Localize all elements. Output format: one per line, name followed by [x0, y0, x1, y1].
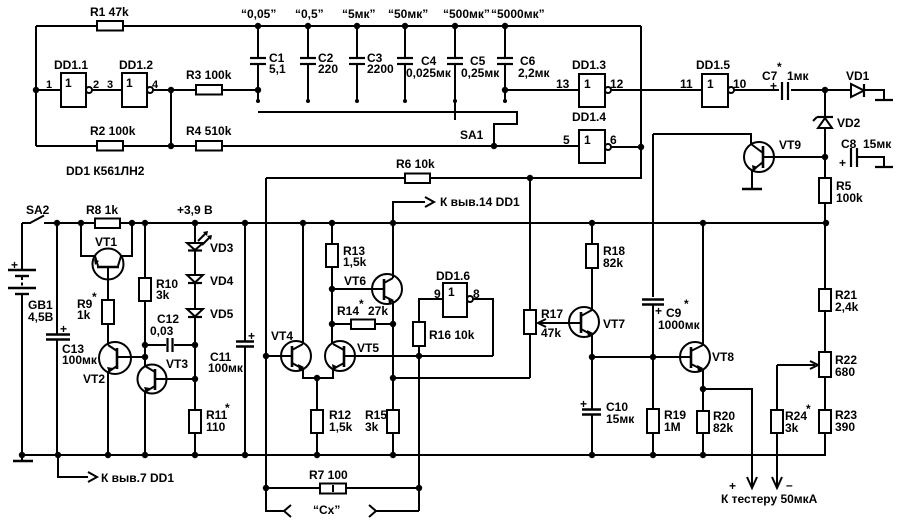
svg-text:15мк: 15мк — [863, 137, 892, 151]
label GB1 4,5V and plus — [11, 258, 54, 324]
svg-text:R1 47k: R1 47k — [90, 5, 129, 19]
label R12 1,5k — [329, 408, 353, 434]
zener diode VD2 — [813, 117, 833, 157]
switch SA1 selector bar — [258, 112, 517, 149]
resistor R1 — [97, 21, 123, 31]
svg-text:220: 220 — [318, 62, 338, 76]
label VT1 — [95, 235, 117, 249]
capacitor C5 — [447, 23, 463, 120]
svg-text:47k: 47k — [541, 326, 561, 340]
resistor R12 — [311, 378, 323, 458]
svg-text:R7 100: R7 100 — [309, 468, 348, 482]
svg-text:1: 1 — [46, 79, 52, 91]
svg-text:3k: 3k — [785, 421, 799, 435]
label VD3 — [210, 241, 234, 255]
wire x825 from y90 down to VD2 — [824, 90, 826, 117]
svg-text:1: 1 — [126, 76, 133, 90]
label R15 3k — [365, 408, 387, 434]
wire x530 from R6 node down to R17 — [529, 178, 531, 310]
svg-text:К тестеру 50мкА: К тестеру 50мкА — [721, 492, 818, 506]
diode VD1 — [851, 84, 893, 100]
transistor VT2 — [99, 342, 145, 455]
label C6 2,2mk — [518, 54, 551, 80]
node junction x393 y223 — [390, 220, 396, 226]
node junction x826 y223 — [823, 220, 829, 226]
svg-text:1: 1 — [584, 77, 591, 91]
wire DD1.6 pin8 down to y356 wire — [473, 299, 493, 356]
wire VT8 collector riser x703 — [702, 223, 704, 345]
label R9 * 1k — [77, 290, 97, 322]
label K vyv.7 DD1 — [101, 471, 174, 485]
resistor R24 with tester minus lead — [771, 365, 783, 488]
label R7 100 — [309, 468, 348, 482]
resistor R18 — [586, 223, 598, 310]
wire DD1.6 pin9 to R16 — [419, 299, 443, 322]
svg-text:“5мк”: “5мк” — [342, 7, 376, 21]
resistor R20 — [697, 389, 709, 458]
wire x393 from rail through VT6 R15 to ground rail — [392, 223, 394, 278]
svg-text:4,5В: 4,5В — [28, 310, 54, 324]
svg-text:R16 10k: R16 10k — [429, 328, 475, 342]
label DD1.3 and inner 1 — [572, 58, 606, 91]
svg-text:82k: 82k — [713, 421, 733, 435]
svg-text:+: + — [580, 397, 587, 411]
wire ground rail y455 — [22, 454, 826, 456]
svg-text:R6 10k: R6 10k — [396, 157, 435, 171]
svg-text:1000мк: 1000мк — [658, 318, 701, 332]
resistor R14 — [332, 320, 393, 330]
svg-text:VD4: VD4 — [210, 274, 234, 288]
svg-text:*: * — [92, 290, 97, 304]
svg-text:82k: 82k — [603, 256, 623, 270]
label "Cx" — [313, 503, 340, 517]
svg-text:VT4: VT4 — [271, 329, 293, 343]
svg-text:К выв.14 DD1: К выв.14 DD1 — [440, 195, 520, 209]
wire vertical x171 to lower wire — [170, 90, 172, 146]
svg-text:DD1.6: DD1.6 — [436, 269, 470, 283]
label C1 5,1 — [269, 51, 286, 76]
label VT7 — [603, 317, 625, 331]
wire C6 node to DD1.3 pin13 — [505, 89, 579, 91]
svg-text:*: * — [777, 60, 782, 74]
wire y357 to VT8 base — [592, 356, 691, 358]
node junction x703 y223 — [700, 220, 706, 226]
label "0,05" — [241, 7, 276, 21]
transistor VT1 — [81, 223, 132, 300]
node junction x317 y378 — [314, 375, 320, 381]
svg-text:C8: C8 — [841, 137, 857, 151]
svg-text:+: + — [655, 304, 662, 318]
capacitor C6 — [497, 23, 513, 103]
pin numbers 3 4 of DD1.2 — [107, 79, 159, 91]
pin numbers 11 10 — [680, 77, 747, 91]
label R22 680 — [835, 353, 857, 379]
svg-text:VT2: VT2 — [83, 372, 105, 386]
svg-text:“5000мк”: “5000мк” — [491, 7, 545, 21]
svg-text:“500мк”: “500мк” — [443, 7, 490, 21]
label VT6 — [344, 274, 366, 288]
wire DD1.2 pin4 to C1 node through R3 — [153, 89, 258, 91]
svg-text:VT5: VT5 — [357, 341, 379, 355]
capacitor C7 — [734, 82, 851, 100]
label DD1.1 and inner 1 — [54, 58, 88, 90]
label R23 390 — [835, 408, 857, 434]
resistor R15 — [387, 410, 399, 458]
label C13 100mk and plus — [60, 322, 98, 367]
label DD1.6 and inner 1 — [436, 269, 470, 299]
wire x195 from C12 node down to R11 — [194, 345, 196, 410]
svg-text:27k: 27k — [368, 304, 388, 318]
resistor R3 — [196, 85, 222, 95]
transistor VT4 — [266, 341, 317, 378]
label R19 1M — [664, 408, 686, 434]
svg-text:5,1: 5,1 — [269, 62, 286, 76]
arrow to pin7 DD1 — [58, 455, 97, 482]
label VT4 — [271, 329, 293, 343]
svg-text:–: – — [786, 478, 793, 492]
resistor R13 — [326, 223, 338, 344]
node junction x653 y357 — [650, 354, 656, 360]
wire x145 between C12 node and VT3 collector node — [144, 345, 146, 357]
svg-text:VT8: VT8 — [712, 350, 734, 364]
svg-text:+3,9 В: +3,9 В — [177, 203, 213, 217]
node junction x303 y223 — [300, 220, 306, 226]
label C9 * 1000mk and plus — [655, 297, 701, 332]
svg-text:3: 3 — [107, 79, 113, 91]
label R13 1,5k — [343, 244, 367, 269]
label SA2 — [26, 203, 50, 217]
wire x266 from R6 row down to VT4 base node — [265, 178, 267, 488]
svg-text:1: 1 — [448, 285, 455, 299]
diode VD4 — [187, 275, 203, 283]
svg-text:*: * — [225, 401, 230, 415]
label C7 * 1mk and plus — [762, 60, 810, 93]
svg-text:1,5k: 1,5k — [343, 255, 367, 269]
svg-text:1k: 1k — [77, 308, 91, 322]
wire top rail y=26 from left riser to x=641 — [36, 25, 641, 27]
node junction x393 y378 — [390, 375, 396, 381]
label R20 82k — [713, 409, 735, 435]
svg-text:VD5: VD5 — [210, 307, 234, 321]
label K vyv.14 DD1 — [440, 195, 520, 209]
svg-text:2,2мк: 2,2мк — [518, 66, 551, 80]
svg-text:VT6: VT6 — [344, 274, 366, 288]
svg-text:2200: 2200 — [367, 62, 394, 76]
svg-text:0,03: 0,03 — [150, 324, 174, 338]
terminal Cx right — [369, 505, 419, 517]
LED VD3 — [187, 231, 212, 251]
potentiometer R17 — [524, 310, 581, 378]
node junction x419 y488 — [416, 485, 422, 491]
svg-text:VT9: VT9 — [779, 138, 801, 152]
wire between DD1.1 pin2 and DD1.2 pin3 — [92, 89, 122, 91]
node junction x825 y157 — [822, 154, 828, 160]
svg-text:3k: 3k — [365, 420, 379, 434]
node junction x825 y90 — [822, 87, 828, 93]
label VD5 — [210, 307, 234, 321]
label "5000mk" — [491, 7, 545, 21]
node junction x171 y146 — [168, 143, 174, 149]
svg-text:+: + — [60, 322, 67, 336]
svg-text:DD1 К561ЛН2: DD1 К561ЛН2 — [66, 164, 145, 178]
svg-text:*: * — [684, 297, 689, 311]
node A: junction x36 y90 — [33, 87, 39, 93]
resistor R21 — [819, 223, 831, 352]
label C10 15mk and plus — [580, 397, 635, 426]
label C2 220 — [318, 51, 338, 76]
capacitor C2 — [300, 23, 316, 103]
label R4 510k — [186, 124, 232, 138]
label R8 1k — [86, 203, 118, 217]
svg-text:VD3: VD3 — [210, 241, 234, 255]
terminal Cx left — [266, 488, 291, 517]
svg-text:13: 13 — [556, 77, 570, 91]
svg-text:1: 1 — [65, 76, 72, 90]
wire supply rail y223 with SA2 gap — [44, 222, 826, 224]
transistor VT9 — [742, 142, 825, 189]
logic inverter DD1.5 — [702, 74, 734, 107]
label R1 47k — [90, 5, 129, 19]
label R5 100k — [836, 179, 863, 205]
label C11 100mk and plus — [208, 329, 255, 375]
svg-text:DD1.4: DD1.4 — [572, 110, 606, 124]
wire tester plus lead from VT8 emitter — [703, 389, 757, 488]
wire x653 from VT9 base corner down through C9 — [652, 134, 654, 297]
node junction x703 y389 — [700, 386, 706, 392]
arrow to pin14 DD1 — [393, 197, 434, 223]
ground symbol bottom left — [13, 455, 33, 461]
svg-text:2,4k: 2,4k — [835, 300, 859, 314]
wire R6 row y178 — [266, 147, 641, 178]
label +3,9 V — [177, 203, 213, 217]
wire VT9 base line y134 and drop into VT9 — [653, 134, 751, 144]
logic inverter DD1.3 — [579, 74, 611, 107]
capacitor C13 — [46, 223, 70, 455]
transistor VT8 — [680, 342, 710, 389]
logic inverter DD1.6 — [443, 283, 473, 317]
wire long y=146 from left riser to DD1.4 pin5 — [36, 145, 579, 147]
node junction x592 y223 — [589, 220, 595, 226]
svg-text:“0,05”: “0,05” — [241, 7, 276, 21]
node junction x592 y357 — [589, 354, 595, 360]
node junction x393 y324 — [390, 321, 396, 327]
svg-text:“Сх”: “Сх” — [313, 503, 340, 517]
svg-text:VD2: VD2 — [837, 116, 861, 130]
wire right drop x=641 from top rail down to DD1.4 pin6 node — [640, 26, 642, 147]
svg-text:DD1.2: DD1.2 — [119, 58, 153, 72]
battery GB1 — [8, 223, 36, 455]
potentiometer R22 — [777, 352, 831, 410]
svg-text:110: 110 — [206, 420, 226, 434]
transistor VT5 — [317, 341, 493, 378]
label VD1 — [846, 69, 870, 83]
node junction x332 y324 — [329, 321, 335, 327]
label VT3 — [166, 357, 188, 371]
svg-text:1мк: 1мк — [787, 69, 810, 83]
svg-text:DD1.5: DD1.5 — [696, 58, 730, 72]
svg-text:*: * — [806, 402, 811, 416]
pin numbers 5 6 — [563, 133, 617, 147]
label R21 2,4k — [835, 288, 859, 314]
transistor VT7 — [569, 307, 599, 357]
svg-text:R17: R17 — [541, 307, 563, 321]
label "0,5" — [295, 7, 324, 21]
label VT5 — [357, 341, 379, 355]
switch SA2 — [22, 216, 44, 224]
pin numbers 9 8 — [434, 287, 480, 301]
svg-text:5: 5 — [563, 133, 570, 147]
label R14 * 27k — [337, 297, 388, 318]
label VT8 — [712, 350, 734, 364]
resistor R2 — [97, 141, 123, 151]
svg-text:15мк: 15мк — [606, 412, 635, 426]
node junctions on ground rail left — [19, 452, 248, 458]
label C5 0,25mk — [461, 54, 500, 80]
svg-text:“0,5”: “0,5” — [295, 7, 324, 21]
label C3 2200 — [367, 51, 394, 76]
label R24 * 3k — [785, 402, 811, 435]
label "5mk" — [342, 7, 376, 21]
label R3 100k — [186, 68, 232, 82]
label plus tester — [729, 479, 736, 493]
label C12 0,03 — [150, 312, 179, 338]
node junction x145 y345 — [142, 342, 148, 348]
svg-text:390: 390 — [835, 420, 855, 434]
svg-text:+: + — [729, 479, 736, 493]
resistor R16 — [413, 322, 425, 511]
capacitor C8 — [851, 148, 893, 167]
svg-text:0,25мк: 0,25мк — [461, 66, 500, 80]
svg-text:6: 6 — [610, 133, 617, 147]
label R6 10k — [396, 157, 435, 171]
node junction x145 y223 — [142, 220, 148, 226]
resistor R19 — [647, 357, 659, 458]
svg-text:VT7: VT7 — [603, 317, 625, 331]
resistor R8 — [78, 219, 135, 229]
capacitor C10 — [582, 357, 601, 458]
svg-text:R8 1k: R8 1k — [86, 203, 118, 217]
label R2 100k — [90, 124, 136, 138]
label DD1.2 and inner 1 — [119, 58, 153, 90]
svg-text:DD1.1: DD1.1 — [54, 58, 88, 72]
label "50mk" — [388, 7, 428, 21]
node junction x245 y223 — [242, 220, 248, 226]
resistor R5 — [819, 157, 831, 223]
logic inverter DD1.2 — [122, 73, 153, 107]
node junction x57 y223 — [54, 220, 60, 226]
label R16 10k — [429, 328, 475, 342]
label R18 82k — [603, 244, 625, 270]
svg-text:R14: R14 — [337, 304, 359, 318]
node junction x332 y223 — [329, 220, 335, 226]
node junction x195 y379 — [192, 376, 198, 382]
resistor R7 with wire y488 — [266, 484, 419, 494]
transistor VT3 — [138, 357, 196, 455]
capacitor C11 — [236, 223, 254, 455]
wire pin1 lead into DD1.1 — [36, 89, 61, 91]
svg-text:100мк: 100мк — [208, 361, 244, 375]
svg-text:К выв.7 DD1: К выв.7 DD1 — [101, 471, 174, 485]
label C4 0,025mk — [406, 54, 452, 80]
pin numbers 13 12 — [556, 77, 624, 91]
svg-text:VD1: VD1 — [846, 69, 870, 83]
label DD1.5 and inner 1 — [696, 58, 730, 91]
node junction x195 y345 — [192, 342, 198, 348]
svg-text:+: + — [248, 329, 255, 343]
svg-text:1,5k: 1,5k — [329, 420, 353, 434]
node junction x419 y356 — [416, 353, 422, 359]
capacitor C12 — [145, 338, 195, 352]
svg-text:1М: 1М — [664, 420, 681, 434]
label C8 15mk and plus — [839, 137, 892, 170]
logic inverter DD1.4 — [579, 130, 644, 163]
transistor VT6 — [332, 274, 402, 304]
svg-text:3k: 3k — [156, 288, 170, 302]
node junction x266 y488 — [263, 485, 269, 491]
svg-text:SA2: SA2 — [26, 203, 50, 217]
capacitor C9 — [642, 300, 664, 358]
resistor R23 — [819, 410, 831, 455]
label DD1 K561LN2 — [66, 164, 145, 178]
node junction x266 y356 — [263, 353, 269, 359]
resistor R9 — [102, 300, 114, 345]
svg-text:+: + — [770, 79, 777, 93]
svg-text:100мк: 100мк — [62, 353, 98, 367]
label DD1.4 and inner 1 — [572, 110, 606, 147]
capacitor C3 — [349, 23, 365, 103]
diode VD5 — [187, 309, 203, 317]
node junction x145 y357 — [142, 354, 148, 360]
op-amp U1: logic inverter DD1.1 — [61, 73, 92, 107]
label VD2 — [837, 116, 861, 130]
svg-text:+: + — [839, 156, 846, 170]
capacitor C4 — [397, 23, 413, 103]
wire left riser x=36 from top rail to y=146 wire — [35, 26, 37, 146]
svg-text:SA1: SA1 — [460, 128, 484, 142]
svg-text:0,025мк: 0,025мк — [406, 66, 452, 80]
node junction x332 y289 — [329, 286, 335, 292]
svg-text:+: + — [11, 258, 18, 272]
svg-text:R4 510k: R4 510k — [186, 124, 232, 138]
label VT9 — [779, 138, 801, 152]
wire VT4 collector riser x303 — [302, 223, 304, 344]
label SA1 — [460, 128, 484, 142]
wire y378 from VT6 line to R17 bottom — [393, 377, 530, 379]
label R10 3k — [156, 277, 178, 302]
wire VT6 emitter down x393 — [392, 301, 394, 410]
label R17 47k — [541, 307, 563, 340]
node junction x195 y223 — [192, 220, 198, 226]
label minus tester — [786, 478, 793, 492]
svg-text:*: * — [359, 297, 364, 311]
svg-text:“50мк”: “50мк” — [388, 7, 428, 21]
wire LED chain x195 — [194, 223, 196, 345]
resistor R11 — [189, 410, 201, 455]
svg-text:100k: 100k — [836, 191, 863, 205]
svg-text:DD1.3: DD1.3 — [572, 58, 606, 72]
capacitor C1 — [250, 23, 266, 103]
node pin4 junction x171 y90 — [168, 87, 174, 93]
svg-text:R2 100k: R2 100k — [90, 124, 136, 138]
svg-text:1: 1 — [584, 133, 591, 147]
label VT2 — [83, 372, 105, 386]
svg-text:1: 1 — [707, 77, 714, 91]
svg-text:11: 11 — [680, 77, 693, 91]
node junction x530 y178 — [527, 175, 533, 181]
label R11 110 * — [206, 401, 230, 434]
label K testeru 50mkA — [721, 492, 818, 506]
resistor R4 — [196, 141, 222, 151]
